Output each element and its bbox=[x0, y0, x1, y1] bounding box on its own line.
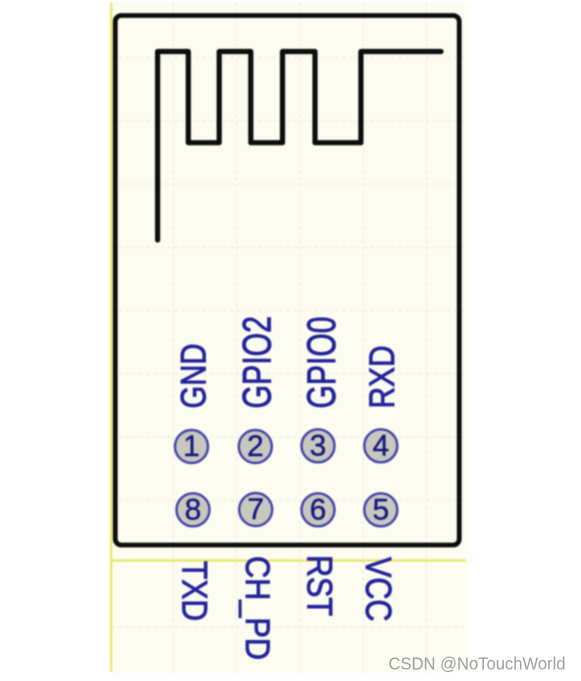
canvas background bbox=[111, 2, 457, 673]
pad 4 bbox=[364, 429, 397, 462]
pad 5 bbox=[364, 493, 397, 526]
pad 7 bbox=[239, 493, 272, 526]
svg-text:CSDN @NoTouchWorld: CSDN @NoTouchWorld bbox=[389, 654, 566, 674]
module outline U1 bbox=[115, 16, 459, 546]
pad 6 bbox=[302, 493, 335, 526]
antenna meander trace bbox=[158, 52, 441, 241]
pad 8 bbox=[177, 493, 210, 526]
pad 2 bbox=[239, 430, 272, 463]
pad 3 bbox=[302, 429, 335, 462]
sheet border vertical (yellow) bbox=[110, 3, 112, 673]
sheet border horizontal (yellow) bbox=[110, 559, 466, 561]
pad 1 bbox=[175, 430, 208, 463]
